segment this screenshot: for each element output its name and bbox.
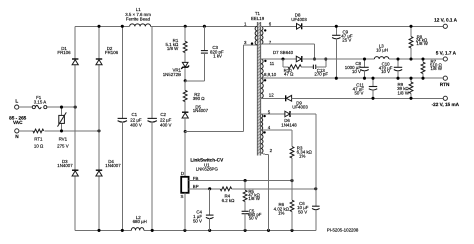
- diode D8: [291, 13, 307, 30]
- wire pin 5 to D6: [261, 113, 285, 115]
- svg-text:1N4007: 1N4007: [105, 163, 121, 168]
- svg-text:1N4148: 1N4148: [281, 122, 297, 127]
- wire bottom DC bus: [75, 229, 316, 231]
- svg-text:10 V: 10 V: [352, 69, 361, 74]
- node junction L-D1D3: [74, 106, 77, 109]
- svg-text:1/8 W: 1/8 W: [398, 90, 410, 95]
- svg-text:10 Ω: 10 Ω: [34, 144, 44, 149]
- resistor R8: [409, 26, 429, 59]
- node junction C8 top: [363, 57, 366, 60]
- node junction C11 top: [371, 77, 374, 80]
- snubber resistor R10: [283, 59, 301, 77]
- node junction R9 bottom: [409, 97, 412, 100]
- svg-text:1 kV: 1 kV: [213, 54, 222, 59]
- svg-text:25 V: 25 V: [342, 37, 351, 42]
- transformer T1 core: [251, 11, 265, 156]
- resistor R5: [243, 181, 261, 202]
- node junction N-RV1: [60, 129, 63, 132]
- svg-text:12: 12: [269, 92, 274, 97]
- diode D4: [96, 159, 121, 176]
- capacitor C2: [148, 26, 172, 230]
- wire D6 to C6: [290, 114, 316, 206]
- svg-text:L: L: [15, 98, 18, 103]
- wire 5V rail: [302, 58, 443, 60]
- svg-text:12 V, 0.1 A: 12 V, 0.1 A: [434, 18, 457, 23]
- capacitor C5: [242, 202, 262, 231]
- capacitor C9: [332, 26, 353, 78]
- node junction snubber left: [281, 57, 284, 60]
- resistor R4: [220, 187, 235, 203]
- node junction BP-C6: [314, 187, 317, 190]
- diode D3: [57, 159, 78, 176]
- node junction bottom bus dots: [97, 229, 293, 232]
- svg-text:680 µH: 680 µH: [133, 219, 147, 224]
- transformer winding pins 6-7: [261, 21, 272, 44]
- capacitor C11: [353, 78, 378, 98]
- svg-text:UF4003: UF4003: [291, 17, 307, 22]
- node primary phase dot: [251, 42, 253, 44]
- diode D7: [273, 50, 302, 62]
- svg-text:S: S: [181, 194, 184, 199]
- capacitor C1: [118, 26, 142, 230]
- diode D9: [286, 95, 309, 109]
- node L input terminal: [15, 98, 19, 109]
- transformer primary winding pins 1-3: [244, 21, 257, 45]
- svg-text:50 V: 50 V: [193, 219, 202, 224]
- node junction snubber right: [324, 57, 327, 60]
- svg-text:11: 11: [270, 61, 275, 66]
- svg-text:6.2 kΩ: 6.2 kΩ: [222, 198, 236, 203]
- svg-text:1/8 W: 1/8 W: [431, 66, 443, 71]
- svg-text:PI-5205-102208: PI-5205-102208: [327, 227, 359, 232]
- node 5V output terminal: [436, 50, 457, 61]
- svg-text:RT1: RT1: [34, 137, 43, 142]
- node junction pin7-5V: [313, 57, 316, 60]
- node winding 12 phase dot: [264, 79, 266, 81]
- zener VR1: [163, 53, 189, 81]
- wire FB line: [189, 180, 293, 182]
- svg-text:1N5272B: 1N5272B: [163, 72, 181, 77]
- node junction N-D2D4: [97, 129, 100, 132]
- inductor L3: [374, 44, 388, 60]
- svg-text:275 V: 275 V: [57, 144, 69, 149]
- transformer winding pins 8,9,10-12: [261, 78, 275, 98]
- diode D6: [281, 111, 297, 127]
- capacitor C6: [297, 201, 320, 231]
- node mains voltage label: [9, 115, 27, 125]
- snubber capacitor C13: [301, 59, 328, 77]
- svg-text:C1: C1: [132, 112, 138, 117]
- svg-text:RTN: RTN: [440, 82, 450, 87]
- inductor L1: [125, 7, 151, 26]
- capacitor C4: [193, 189, 214, 231]
- wire D2-D4 leg: [98, 26, 100, 230]
- wire source to bus: [184, 193, 186, 231]
- node N input terminal: [15, 129, 20, 139]
- svg-text:1/8 W: 1/8 W: [167, 46, 179, 51]
- svg-text:50 V: 50 V: [354, 90, 363, 95]
- node winding 11 phase dot: [264, 60, 266, 62]
- resistor R3: [290, 130, 312, 181]
- svg-text:1N4007: 1N4007: [57, 163, 73, 168]
- svg-text:10 µH: 10 µH: [376, 47, 388, 52]
- svg-text:1/8 W: 1/8 W: [248, 196, 260, 201]
- node junction VR1-R2-C3: [184, 79, 187, 82]
- svg-text:Ferrite Bead: Ferrite Bead: [126, 16, 151, 21]
- thermistor RT1: [33, 129, 44, 149]
- op-amp U1 LinkSwitch-CV IC: [181, 158, 225, 200]
- svg-text:1/8 W: 1/8 W: [416, 41, 428, 46]
- resistor R9: [397, 78, 413, 98]
- wire clamp to C3: [185, 80, 204, 82]
- node junction R7 top: [421, 57, 424, 60]
- capacitor C10: [379, 59, 402, 78]
- wire D1-D3 leg: [74, 26, 76, 230]
- svg-text:47 Ω: 47 Ω: [284, 72, 294, 77]
- node junction C10 bottom: [396, 77, 399, 80]
- node junction FB-R5: [244, 179, 247, 182]
- svg-text:-22 V, 15 mA: -22 V, 15 mA: [432, 102, 460, 107]
- diode D1: [57, 46, 78, 65]
- svg-text:1N4007: 1N4007: [193, 108, 209, 113]
- svg-text:RV1: RV1: [59, 137, 68, 142]
- node junction C11 bottom: [371, 97, 374, 100]
- wire pin 6 to D8: [261, 25, 297, 27]
- node junction C8 bottom: [363, 77, 366, 80]
- wire 12V rail: [302, 25, 444, 27]
- wire pin 12 to D9: [261, 97, 286, 99]
- resistor R1: [165, 26, 187, 52]
- svg-text:390 Ω: 390 Ω: [193, 96, 206, 101]
- node -22V output terminal: [432, 96, 460, 107]
- wire pin 11 to D7: [261, 58, 297, 60]
- resistor R7: [421, 59, 443, 78]
- node RTN output terminal: [440, 76, 450, 87]
- node junction C9 bottom: [335, 77, 338, 80]
- wire N line: [19, 130, 99, 132]
- wire drain to transformer pin 3: [185, 45, 257, 132]
- svg-text:EEL19: EEL19: [251, 16, 265, 21]
- svg-text:400 V: 400 V: [160, 122, 172, 127]
- resistor R6: [274, 181, 294, 231]
- svg-text:400 V: 400 V: [130, 122, 142, 127]
- svg-text:VAC: VAC: [13, 120, 23, 125]
- svg-text:FR106: FR106: [57, 50, 71, 55]
- svg-text:D7 SB640: D7 SB640: [273, 50, 294, 55]
- svg-text:1%: 1%: [278, 210, 284, 215]
- svg-text:LNK626PG: LNK626PG: [196, 167, 219, 172]
- svg-text:50 V: 50 V: [298, 209, 307, 214]
- node winding 5 phase dot: [263, 115, 265, 117]
- node junction R9 top: [409, 77, 412, 80]
- wire RTN rail: [261, 77, 444, 79]
- svg-text:8,9,10: 8,9,10: [264, 72, 277, 77]
- node winding 6 phase dot: [264, 29, 266, 31]
- diode D5: [182, 102, 209, 132]
- wire L line: [19, 106, 75, 108]
- resistor R2: [183, 81, 205, 102]
- wire pin 7 to 5V rail: [261, 44, 315, 59]
- inductor L2: [131, 215, 147, 230]
- node drain junction: [184, 130, 187, 133]
- svg-text:FR106: FR106: [105, 50, 119, 55]
- svg-text:UF4003: UF4003: [292, 105, 308, 110]
- node junction R7 bottom: [421, 77, 424, 80]
- transformer bias winding pins 4-2: [261, 130, 273, 153]
- svg-text:10 V: 10 V: [381, 69, 390, 74]
- svg-text:5 V, 1.7 A: 5 V, 1.7 A: [436, 50, 457, 55]
- wire pin 2 to bottom bus: [261, 153, 269, 230]
- transformer bias winding pins 5-4: [261, 110, 271, 131]
- capacitor C8: [345, 59, 369, 78]
- wire pin 4 to R3: [261, 129, 292, 131]
- wire top DC bus: [75, 25, 257, 27]
- node junction FB-R3R6: [290, 179, 293, 182]
- node junction BP-C4: [208, 187, 211, 190]
- wire BP line: [189, 188, 316, 190]
- svg-text:D: D: [181, 171, 184, 176]
- svg-text:3.15 A: 3.15 A: [34, 99, 47, 104]
- wire drain to IC: [184, 132, 186, 177]
- node junction C9 top: [335, 25, 338, 28]
- varistor RV1: [57, 107, 69, 149]
- wire -22V rail: [292, 97, 444, 99]
- node junction R8 bottom: [409, 57, 412, 60]
- svg-text:1%: 1%: [299, 153, 305, 158]
- capacitor C3: [201, 26, 224, 81]
- fuse F1: [32, 95, 47, 109]
- node winding 4 phase dot: [263, 131, 265, 133]
- node 12V output terminal: [434, 18, 457, 29]
- transformer winding pins 11-8,9,10: [261, 59, 277, 78]
- node junction top bus dots: [97, 25, 206, 28]
- node junction L-RV1: [60, 106, 63, 109]
- svg-text:50 V: 50 V: [249, 216, 258, 221]
- diode D2: [96, 46, 119, 65]
- node junction C10 top: [396, 57, 399, 60]
- svg-text:270 pF: 270 pF: [314, 72, 328, 77]
- node junction R8 top: [409, 25, 412, 28]
- svg-text:C2: C2: [160, 112, 166, 117]
